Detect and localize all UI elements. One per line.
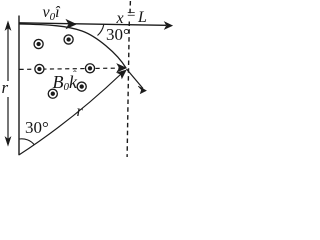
dimension arrow r upper shaft bbox=[7, 27, 9, 81]
label r radius bbox=[77, 104, 83, 120]
field symbol B out of page 5 bbox=[48, 89, 57, 98]
exit velocity arrow shaft bbox=[127, 69, 144, 89]
field symbol B out of page 3 bbox=[35, 64, 44, 73]
label = bbox=[127, 8, 135, 23]
field symbol B out of page 4 bbox=[85, 64, 94, 73]
label 30 deg top bbox=[106, 26, 130, 43]
field symbol B out of page 1 bbox=[34, 39, 43, 48]
trajectory arc of particle bbox=[19, 24, 126, 68]
dashed horizontal line arrowhead bbox=[117, 64, 126, 72]
velocity v0 arrowhead on line bbox=[66, 20, 76, 29]
field symbol B out of page 6 bbox=[77, 82, 86, 91]
angle arc 30 deg top bbox=[98, 25, 104, 36]
exit velocity arrowhead bbox=[138, 86, 146, 93]
x-axis arrowhead bbox=[165, 22, 173, 29]
label 30 deg bottom bbox=[25, 119, 49, 136]
dashed vertical line x=L bbox=[129, 1, 131, 14]
label B0 k-hat bbox=[53, 73, 78, 93]
x-axis top line bbox=[19, 23, 167, 26]
dimension arrow r (up arrowhead) bbox=[5, 21, 11, 30]
field boundary left vertical line bbox=[18, 16, 20, 156]
field symbol B out of page 2 bbox=[64, 35, 73, 44]
label r dimension bbox=[2, 79, 9, 96]
label L bbox=[138, 10, 147, 26]
dimension arrow r (down arrowhead) bbox=[5, 137, 11, 146]
label x bbox=[117, 11, 124, 27]
radius line from centre to exit point bbox=[19, 74, 121, 155]
dashed horizontal line at mid field bbox=[20, 68, 122, 69]
dimension arrow r lower shaft bbox=[7, 97, 9, 139]
radius line arrowhead at exit point bbox=[117, 70, 126, 78]
angle arc 30 deg bottom bbox=[19, 139, 34, 145]
label v0 i-hat bbox=[43, 5, 60, 23]
